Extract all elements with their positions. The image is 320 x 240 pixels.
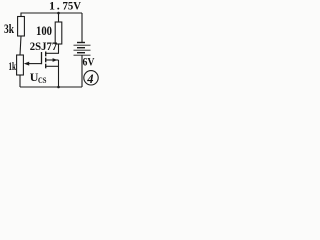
- battery BT1 plate long 3: [74, 54, 91, 56]
- battery BT1 plate short 1: [77, 42, 85, 44]
- wire 100 bottom to drain: [58, 44, 60, 53]
- battery BT1 plate long 2: [74, 49, 91, 51]
- potentiometer R2 1k: [17, 55, 24, 75]
- transistor U1 2SJ77 gate bar: [41, 52, 43, 64]
- wire bottom rail: [20, 86, 82, 88]
- transistor U1 source lead: [46, 65, 59, 67]
- wire top rail to battery: [81, 13, 83, 42]
- transistor U1 channel segment top: [45, 52, 47, 57]
- wire 3k bottom to 1k top: [20, 36, 21, 55]
- wire battery bottom to rail: [81, 55, 83, 87]
- svg-text:6V: 6V: [83, 55, 95, 69]
- svg-text:4: 4: [86, 72, 93, 86]
- transistor U1 channel segment middle: [45, 58, 47, 63]
- node source junction bottom rail: [57, 86, 60, 89]
- battery BT1 plate short 2: [77, 47, 85, 49]
- transistor U1 drain lead: [46, 52, 59, 54]
- transistor U1 body lead: [46, 59, 59, 61]
- battery BT1 plate short 3: [77, 52, 85, 54]
- svg-text:CS: CS: [38, 76, 47, 85]
- svg-text:2SJ77: 2SJ77: [30, 41, 58, 53]
- wire source to bottom rail: [58, 60, 60, 87]
- wire pot bottom: [19, 75, 21, 87]
- wiper arrowhead: [24, 62, 29, 66]
- wire 100-ohm branch from rail: [58, 13, 60, 22]
- svg-text:100: 100: [36, 24, 52, 38]
- svg-text:1.75V: 1.75V: [49, 0, 81, 13]
- svg-text:3k: 3k: [4, 22, 14, 36]
- resistor R3 100: [55, 22, 62, 44]
- figure number circle 4: [84, 71, 98, 85]
- transistor U1 body arrowhead: [53, 58, 58, 62]
- wire top rail: [21, 13, 82, 17]
- node drain-branch tap on top rail: [57, 12, 60, 15]
- resistor R1 3k: [18, 17, 25, 37]
- battery BT1 plate long 1: [74, 44, 91, 46]
- wire pot wiper to gate: [28, 63, 42, 65]
- transistor U1 channel segment bottom: [45, 64, 47, 69]
- svg-text:1k: 1k: [9, 59, 17, 73]
